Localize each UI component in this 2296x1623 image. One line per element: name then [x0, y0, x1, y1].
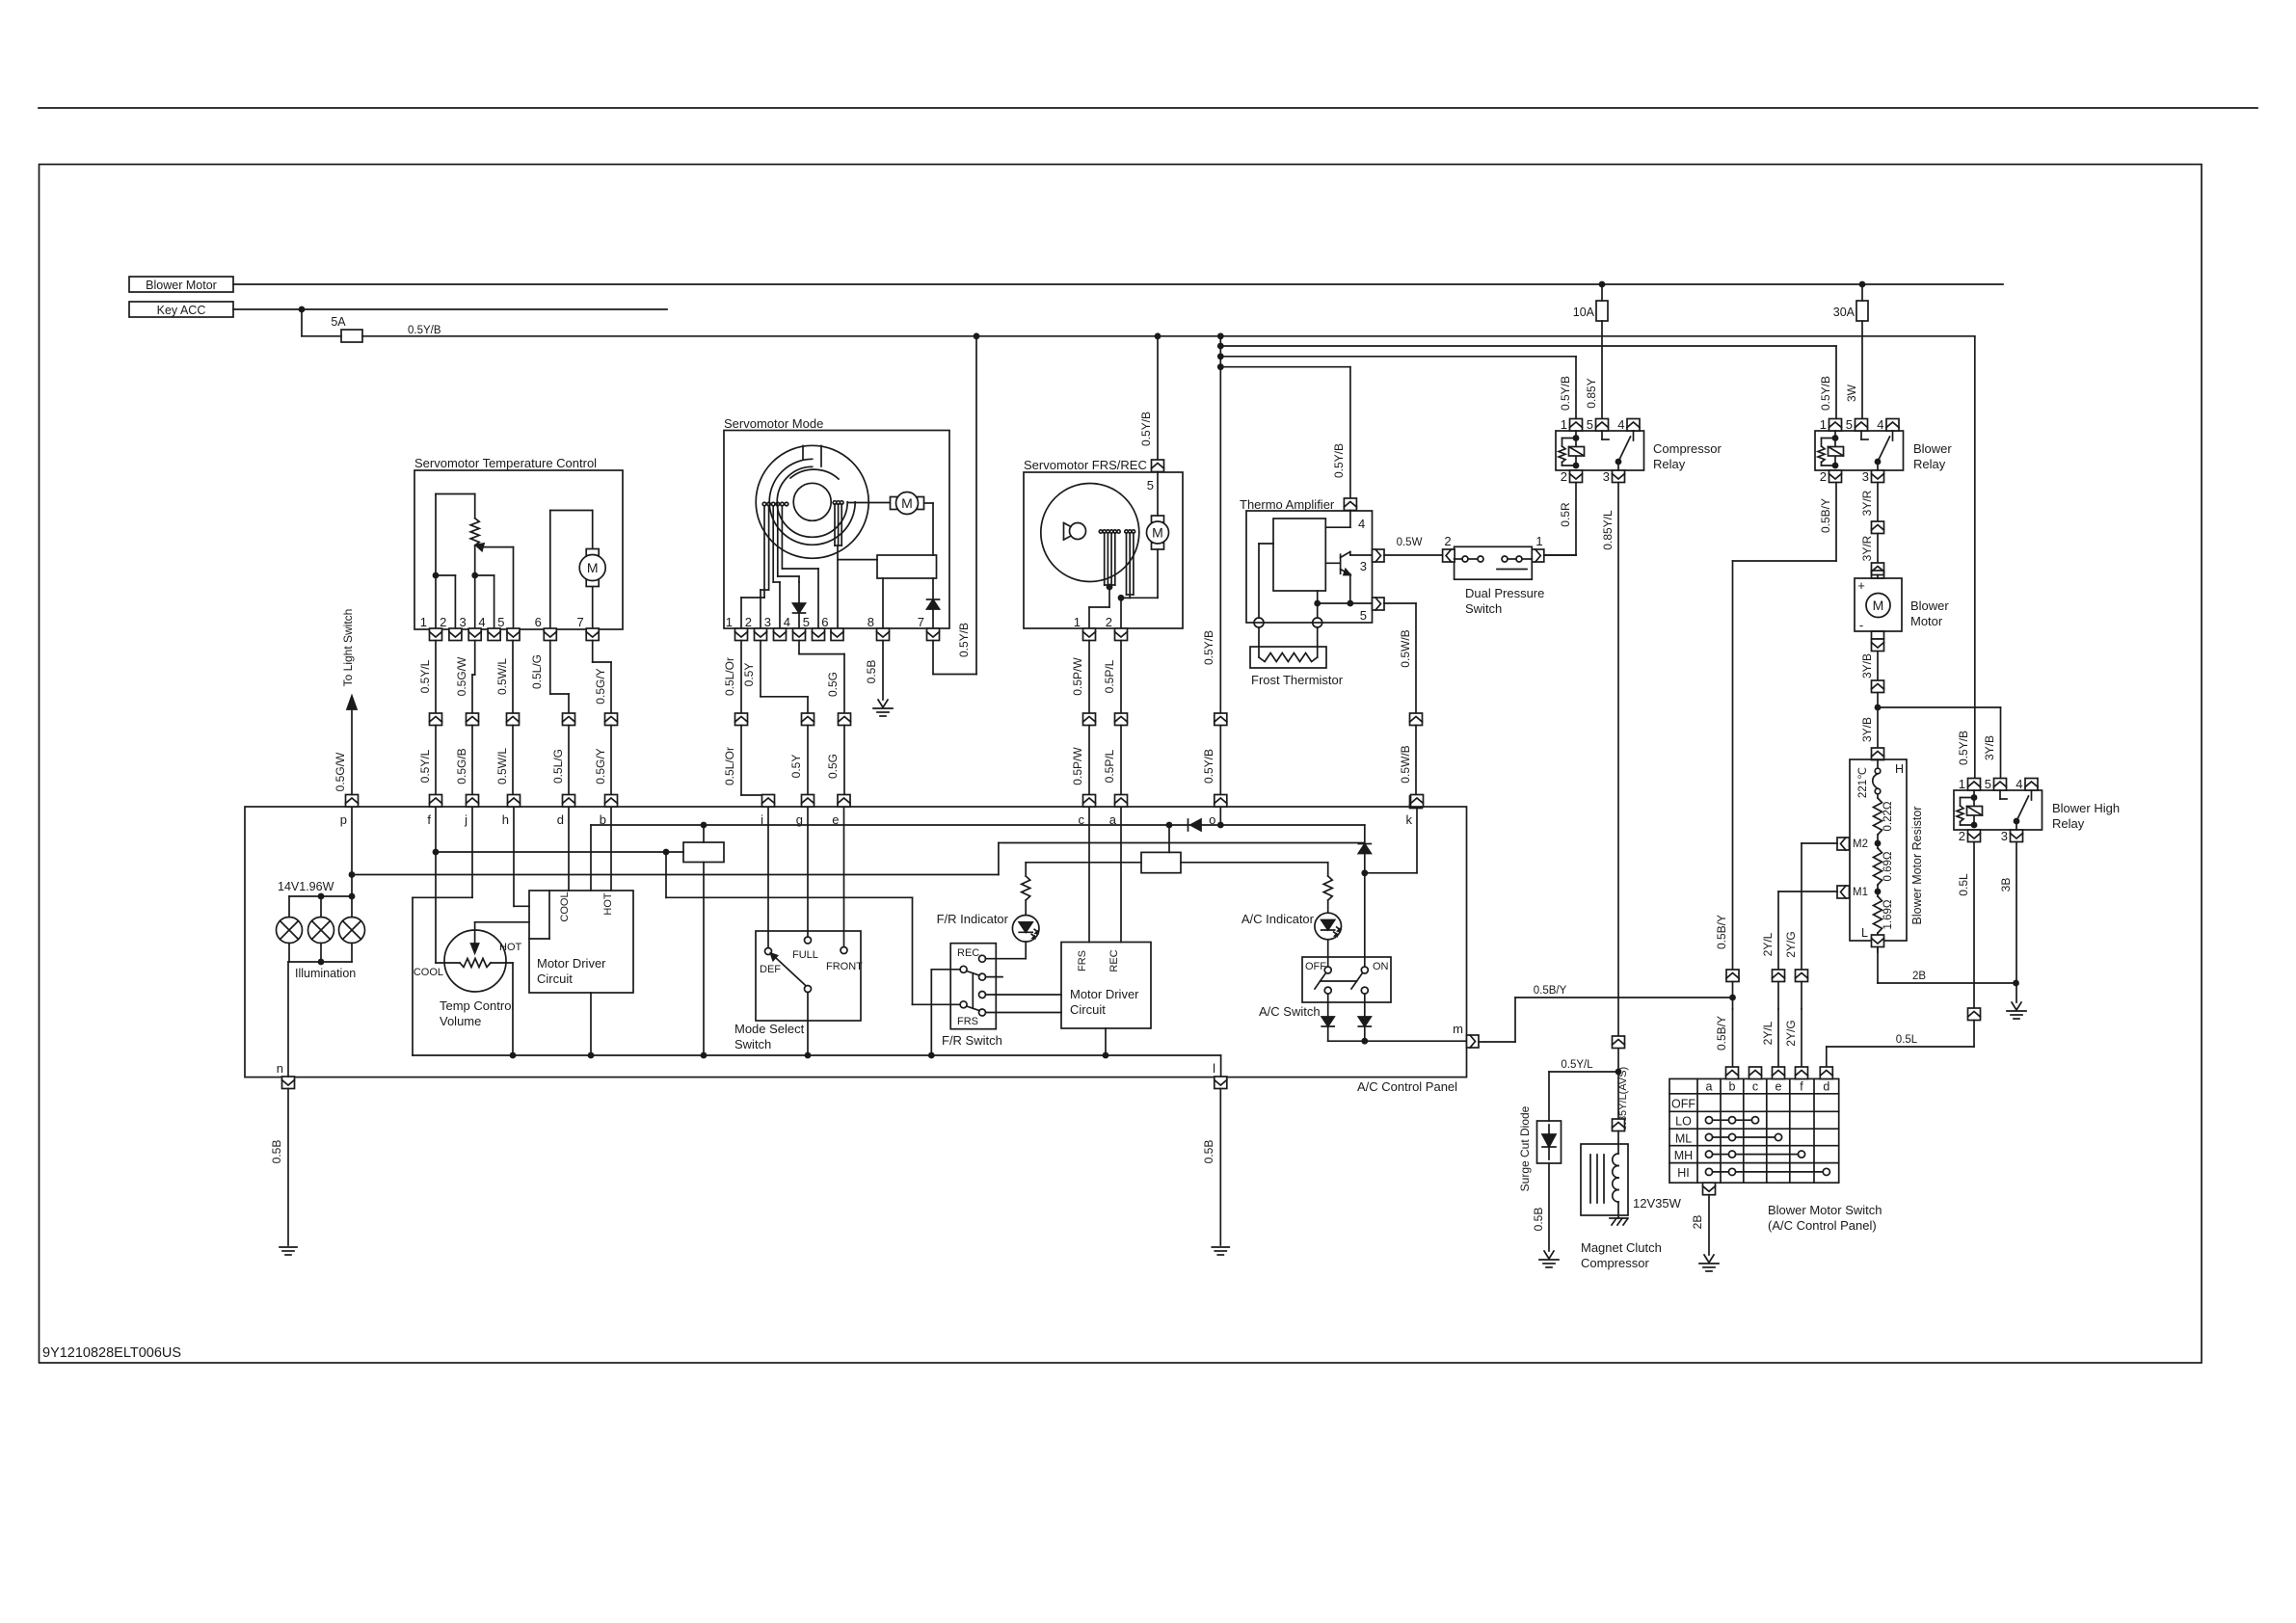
- svg-text:m: m: [1453, 1022, 1463, 1036]
- wire to A/C switch ON: [1364, 873, 1366, 967]
- resistor F/R indicator: [1022, 876, 1030, 900]
- block Motor Driver Circuit 2: [1061, 943, 1151, 1029]
- svg-text:6: 6: [535, 615, 542, 629]
- resistor A/C indicator: [1323, 876, 1332, 900]
- node 30A tap: [1859, 281, 1866, 288]
- svg-text:Servomotor Temperature Control: Servomotor Temperature Control: [414, 456, 597, 470]
- wire g to FULL: [807, 808, 809, 937]
- connector panel e: [838, 795, 850, 808]
- svg-text:ML: ML: [1675, 1131, 1692, 1145]
- wire contacts to driver block: [838, 559, 877, 561]
- connector panel o: [1215, 795, 1227, 808]
- svg-text:n: n: [277, 1061, 283, 1076]
- lamp illumination: [339, 918, 365, 944]
- wire j: [471, 808, 473, 897]
- driver block servomotor mode: [877, 555, 937, 578]
- wire driver to pin7: [932, 578, 934, 599]
- connector switch a to ground: [1703, 1183, 1716, 1195]
- diode pin4 servomotor mode: [793, 603, 806, 613]
- svg-text:A/C Switch: A/C Switch: [1259, 1004, 1321, 1019]
- svg-text:3Y/B: 3Y/B: [1860, 717, 1874, 742]
- contacts HI row: [1705, 1168, 1712, 1175]
- contact common: [805, 986, 812, 993]
- wire driver to pin8: [882, 578, 884, 629]
- wire p bus: [352, 874, 999, 876]
- motor M servomotor FRS/REC: [1152, 516, 1164, 522]
- thermo amp inner circuit block: [1273, 519, 1325, 591]
- node surge diode tap: [1615, 1069, 1622, 1076]
- ground n: [280, 1246, 297, 1248]
- ground blower high relay pin3: [2012, 1002, 2021, 1010]
- wire c to MDC2 FRS: [1088, 808, 1090, 943]
- fuse 5A: [341, 330, 362, 342]
- wire contacts to pin6: [837, 545, 839, 629]
- connector servo mode pin 6: [831, 628, 843, 641]
- wire 0.5B/Y into switch: [1732, 1009, 1734, 1067]
- wire 0.5B from l: [1219, 1089, 1221, 1246]
- connector servo mode pin 3: [774, 628, 787, 641]
- wire 0.5Y/B to blower high relay pin1: [1974, 336, 1976, 779]
- svg-text:Circuit: Circuit: [1070, 1002, 1106, 1017]
- svg-text:ON: ON: [1373, 961, 1389, 972]
- svg-text:0.5W/L: 0.5W/L: [495, 658, 509, 695]
- svg-text:5: 5: [803, 615, 810, 629]
- svg-text:c: c: [1752, 1080, 1758, 1094]
- wire to frost thermistor: [1258, 627, 1260, 657]
- connector 0.5Y mid: [802, 713, 814, 726]
- svg-text:0.5Y/B: 0.5Y/B: [1202, 630, 1215, 665]
- svg-text:0.5Y: 0.5Y: [742, 663, 756, 687]
- svg-text:2: 2: [440, 615, 446, 629]
- wire to pin5: [1318, 602, 1373, 604]
- svg-text:Volume: Volume: [440, 1014, 481, 1028]
- node 10A tap: [1599, 281, 1606, 288]
- wire 0.5Y: [760, 641, 761, 697]
- svg-text:0.22Ω: 0.22Ω: [1882, 801, 1894, 831]
- contacts MH row: [1705, 1151, 1712, 1157]
- diode A/C ON: [1358, 1017, 1371, 1026]
- svg-text:A/C Indicator: A/C Indicator: [1241, 912, 1315, 926]
- svg-text:0.5L/G: 0.5L/G: [530, 654, 544, 689]
- resistor 0.22 ohm: [1874, 798, 1882, 835]
- svg-text:M: M: [587, 560, 599, 575]
- thermistor terminal right: [1313, 618, 1322, 627]
- connector 0.5P/W mid: [1083, 713, 1096, 726]
- svg-text:L: L: [1861, 926, 1868, 940]
- wire 0.5B to ground: [882, 641, 884, 701]
- connector panel a: [1115, 795, 1128, 808]
- connector 0.5W/B: [1410, 713, 1423, 726]
- wire 3Y/R: [1877, 483, 1879, 522]
- svg-text:0.5G/W: 0.5G/W: [334, 752, 347, 791]
- connector 0.5P/L mid: [1115, 713, 1128, 726]
- wiper temp pot: [481, 546, 514, 548]
- wire 0.5L from blower high relay pin2: [1973, 842, 1975, 1009]
- connector 0.5W/B panel k: [1410, 796, 1423, 809]
- connector FRS/REC pin1: [1083, 628, 1096, 641]
- connector 0.5W/L mid: [507, 713, 520, 726]
- wire h: [513, 808, 515, 906]
- svg-text:Relay: Relay: [1913, 457, 1946, 471]
- svg-text:2: 2: [1959, 829, 1965, 843]
- connector 0.5B/Y: [1726, 970, 1739, 982]
- page separator rule: [39, 107, 2257, 109]
- svg-text:0.5G/Y: 0.5G/Y: [594, 748, 607, 784]
- svg-text:0.5Y/B: 0.5Y/B: [1819, 376, 1832, 411]
- coil Magnet Clutch Compressor: [1581, 1144, 1628, 1215]
- ground magnet clutch: [1610, 1217, 1627, 1219]
- svg-text:Mode Select: Mode Select: [734, 1022, 805, 1036]
- wire pin5 to motor: [1157, 472, 1159, 517]
- connector thermo amp pin3: [1373, 549, 1385, 562]
- node p rail junction: [349, 871, 356, 878]
- lever A/C OFF: [1315, 973, 1326, 990]
- connector panel p: [346, 795, 359, 808]
- motor M servomotor mode: [891, 497, 897, 510]
- svg-text:HI: HI: [1677, 1166, 1690, 1180]
- ground servomotor mode pin8: [878, 700, 888, 707]
- relay Blower Relay: [1815, 431, 1904, 470]
- wire 3B from blower high relay pin3: [2016, 842, 2017, 1003]
- connector servo temp pin 7: [586, 628, 599, 641]
- svg-text:COOL: COOL: [414, 967, 443, 978]
- wire 0.5Y/B to servomotor mode pin7: [975, 336, 977, 675]
- svg-text:F/R Switch: F/R Switch: [942, 1033, 1002, 1048]
- relay Blower High Relay: [1954, 790, 2042, 830]
- wire p to illumination: [351, 808, 353, 896]
- svg-text:2B: 2B: [1691, 1215, 1704, 1230]
- wire 0.5P/W: [1088, 641, 1090, 714]
- svg-text:Blower: Blower: [1913, 441, 1952, 456]
- svg-text:Blower High: Blower High: [2052, 801, 2120, 815]
- connector panel f: [430, 795, 442, 808]
- connector 0.5L: [1968, 1008, 1981, 1021]
- wire lamp top rail: [289, 895, 352, 897]
- svg-text:1: 1: [726, 615, 733, 629]
- svg-text:0.5Y/B: 0.5Y/B: [408, 325, 441, 336]
- node 3Y/B junction: [1875, 705, 1882, 711]
- svg-text:7: 7: [576, 615, 583, 629]
- connector servo mode pin 2: [755, 628, 767, 641]
- svg-text:M2: M2: [1853, 838, 1868, 850]
- wire 0.85Y to compressor relay pin5: [1601, 321, 1603, 419]
- lever mode select: [773, 955, 806, 986]
- connector servo mode pin 5: [813, 628, 825, 641]
- wire f bus: [436, 851, 683, 853]
- wire 2Y/G into switch: [1801, 1009, 1802, 1067]
- connector servo temp pin 3: [468, 628, 481, 641]
- lever F/R 2: [967, 1006, 979, 1011]
- svg-text:14V1.96W: 14V1.96W: [278, 880, 334, 893]
- svg-text:h: h: [502, 812, 509, 827]
- switch grid Blower Motor Switch: [1669, 1078, 1839, 1183]
- diode clamp pin7: [927, 599, 940, 600]
- wire F/R to MDC2 b: [986, 1012, 1062, 1014]
- wire b to motor driver HOT: [610, 808, 612, 891]
- svg-text:1: 1: [1959, 777, 1965, 791]
- svg-text:DEF: DEF: [760, 964, 781, 975]
- connector switch col: [1796, 1067, 1808, 1079]
- svg-text:8: 8: [868, 615, 874, 629]
- svg-text:p: p: [340, 812, 347, 827]
- svg-text:1: 1: [420, 615, 427, 629]
- svg-text:1: 1: [1074, 615, 1081, 629]
- svg-text:3: 3: [764, 615, 771, 629]
- svg-text:0.5L/Or: 0.5L/Or: [723, 747, 736, 785]
- svg-text:2: 2: [1820, 469, 1827, 484]
- component R1 block: [683, 842, 724, 863]
- diagram border frame: [40, 165, 2203, 1364]
- connector m: [1467, 1035, 1480, 1048]
- node 0.5B/Y / m junction: [1729, 995, 1736, 1001]
- connector 0.5L/Or mid: [735, 713, 748, 726]
- connector 3Y/B resistor H: [1872, 748, 1884, 760]
- svg-text:0.5Y/B: 0.5Y/B: [1559, 376, 1572, 411]
- svg-text:3: 3: [2001, 829, 2008, 843]
- svg-text:Compressor: Compressor: [1581, 1256, 1649, 1270]
- wire 2B: [1708, 1195, 1710, 1255]
- contacts LO row: [1705, 1117, 1712, 1124]
- wire R1 to rail: [703, 863, 705, 1056]
- resistor temp pot: [470, 519, 479, 545]
- resistor block Blower Motor Resistor: [1850, 759, 1907, 941]
- wire Key ACC line: [233, 308, 667, 310]
- contacts ML row: [1705, 1133, 1712, 1140]
- wire DPS pin1 to compressor relay pin2: [1544, 554, 1576, 556]
- wire pin7 to feed: [932, 641, 934, 675]
- svg-text:Key ACC: Key ACC: [157, 304, 206, 317]
- svg-text:221℃: 221℃: [1857, 767, 1869, 798]
- svg-text:4: 4: [784, 615, 790, 629]
- wire 3W to blower relay pin5: [1861, 321, 1863, 419]
- svg-text:0.5B: 0.5B: [1202, 1140, 1215, 1164]
- svg-text:0.5Y/L: 0.5Y/L: [1561, 1059, 1593, 1071]
- svg-text:0.5P/W: 0.5P/W: [1071, 657, 1084, 696]
- thermal fuse element 221C: [1873, 774, 1878, 788]
- svg-text:5: 5: [1985, 777, 1991, 791]
- connector DPS pin2: [1443, 549, 1455, 562]
- connector 0.5G/W mid: [467, 713, 479, 726]
- svg-text:3Y/R: 3Y/R: [1860, 490, 1874, 516]
- wire 2Y/L into switch: [1777, 1009, 1779, 1067]
- svg-text:0.5L/Or: 0.5L/Or: [723, 657, 736, 696]
- svg-text:To Light Switch: To Light Switch: [341, 609, 355, 687]
- svg-text:0.5G/B: 0.5G/B: [455, 748, 468, 784]
- svg-text:0.5L: 0.5L: [1896, 1034, 1918, 1046]
- svg-text:5: 5: [1846, 417, 1853, 432]
- connector panel g: [802, 795, 814, 808]
- wire 0.5Y/L: [435, 641, 437, 714]
- thermistor Frost Thermistor: [1250, 647, 1326, 668]
- link F/R levers: [972, 973, 974, 1008]
- wire feed to compressor relay pin1: [1220, 356, 1576, 358]
- wire inner bus: [591, 824, 1365, 826]
- connector 0.5G/Y mid: [605, 713, 618, 726]
- connector switch col: [1726, 1067, 1739, 1079]
- svg-text:0.5B/Y: 0.5B/Y: [1819, 498, 1832, 533]
- svg-text:H: H: [1895, 762, 1904, 776]
- svg-text:5: 5: [497, 615, 504, 629]
- svg-text:3W: 3W: [1845, 384, 1858, 402]
- contact FRS top-left: [960, 966, 967, 972]
- connector M2: [1837, 838, 1850, 850]
- diode Surge Cut Diode: [1537, 1121, 1562, 1163]
- contact FRS bottom-left: [960, 1001, 967, 1008]
- wire inner bus 2: [999, 842, 1365, 844]
- svg-text:Dual Pressure: Dual Pressure: [1465, 586, 1544, 600]
- wire feed to thermo amplifier pin4: [1220, 366, 1350, 368]
- ground l: [1212, 1246, 1229, 1248]
- svg-text:COOL: COOL: [559, 891, 571, 921]
- contact FULL: [805, 937, 812, 944]
- svg-text:0.5L: 0.5L: [1957, 873, 1970, 896]
- svg-text:0.5B/Y: 0.5B/Y: [1715, 915, 1728, 949]
- connector servo mode pin 1: [735, 628, 748, 641]
- connector panel j: [467, 795, 479, 808]
- svg-text:Switch: Switch: [734, 1037, 771, 1051]
- svg-text:0.5G/W: 0.5G/W: [455, 656, 468, 696]
- svg-text:b: b: [1729, 1080, 1736, 1094]
- wire i to DEF: [767, 808, 769, 948]
- wire 0.5G: [798, 641, 800, 654]
- svg-text:0.69Ω: 0.69Ω: [1882, 851, 1894, 881]
- switch Dual Pressure Switch: [1455, 546, 1533, 579]
- wire j to bottom rail: [412, 897, 414, 1055]
- wire 0.5G/W: [471, 675, 473, 713]
- svg-text:3B: 3B: [1999, 878, 2013, 892]
- svg-text:0.5W/L: 0.5W/L: [495, 748, 509, 785]
- svg-text:4: 4: [1358, 517, 1365, 531]
- svg-text:REC: REC: [957, 947, 979, 959]
- svg-text:Switch: Switch: [1465, 601, 1502, 616]
- svg-text:3: 3: [459, 615, 466, 629]
- connector switch col: [1820, 1067, 1832, 1079]
- svg-text:1: 1: [1535, 534, 1542, 548]
- svg-text:0.5P/L: 0.5P/L: [1103, 659, 1116, 693]
- svg-text:FRS: FRS: [957, 1016, 978, 1027]
- connector 3Y/R lower: [1872, 563, 1884, 575]
- svg-text:d: d: [1823, 1080, 1829, 1094]
- svg-text:Thermo Amplifier: Thermo Amplifier: [1240, 497, 1335, 512]
- wire pot HOT side to rail: [512, 963, 514, 1055]
- wire 0.5B/Y: [1835, 483, 1837, 562]
- svg-text:Temp Control: Temp Control: [440, 998, 514, 1013]
- connector panel c: [1083, 795, 1096, 808]
- svg-text:0.5Y/B: 0.5Y/B: [1332, 443, 1346, 478]
- diode k to bus: [1358, 843, 1371, 845]
- connector 2Y/G: [1796, 970, 1808, 982]
- svg-text:j: j: [464, 812, 467, 827]
- svg-text:3Y/B: 3Y/B: [1860, 653, 1874, 678]
- svg-text:FRS: FRS: [1077, 950, 1088, 971]
- svg-text:3: 3: [1603, 469, 1610, 484]
- svg-text:0.5R: 0.5R: [1559, 502, 1572, 527]
- svg-text:HOT: HOT: [602, 892, 614, 916]
- wire feed to blower relay pin1: [1220, 345, 1836, 347]
- svg-text:0.5P/L: 0.5P/L: [1103, 749, 1116, 783]
- svg-text:2: 2: [1561, 469, 1567, 484]
- wire MDC2 to rail: [1105, 1028, 1107, 1055]
- node feed column: [1217, 333, 1224, 339]
- node FRS/REC pin2: [1118, 595, 1125, 601]
- node f / line-a junction: [433, 849, 440, 856]
- motor Blower Motor: [1855, 578, 1902, 631]
- svg-text:2Y/G: 2Y/G: [1784, 931, 1798, 957]
- svg-text:4: 4: [2016, 777, 2022, 791]
- switch F/R Switch: [950, 944, 996, 1029]
- connector FRS/REC pin5: [1152, 460, 1164, 472]
- svg-text:0.5B: 0.5B: [865, 660, 878, 684]
- connector servo temp pin 4: [488, 628, 500, 641]
- node Key ACC branch: [299, 306, 306, 313]
- wire REC contact to LED: [986, 958, 1027, 960]
- svg-text:2Y/L: 2Y/L: [1761, 1021, 1775, 1045]
- svg-text:Relay: Relay: [2052, 816, 2085, 831]
- connector servo temp pin 2: [449, 628, 462, 641]
- node 2B / 3B junction: [2013, 980, 2019, 987]
- svg-text:5: 5: [1147, 478, 1154, 492]
- svg-text:4: 4: [1877, 417, 1883, 432]
- connector panel l: [1215, 1077, 1227, 1089]
- contact OFF top: [1324, 967, 1331, 973]
- connector 0.5Y/B o mid: [1215, 713, 1227, 726]
- wire 0.5Y/B main feed: [362, 335, 1975, 337]
- svg-text:5A: 5A: [331, 315, 346, 329]
- wire ON to diode: [1364, 994, 1366, 1017]
- connector switch col: [1749, 1067, 1762, 1079]
- svg-text:0.5B/Y: 0.5B/Y: [1715, 1016, 1728, 1051]
- svg-text:HOT: HOT: [499, 942, 522, 953]
- svg-text:MH: MH: [1674, 1149, 1693, 1162]
- box A/C Control Panel: [245, 807, 1467, 1078]
- wire to FRS top-left: [931, 969, 960, 971]
- connector panel n: [282, 1077, 295, 1089]
- component R2 block: [1141, 852, 1181, 872]
- svg-text:LO: LO: [1675, 1115, 1692, 1129]
- wire a to MDC2 REC: [1120, 808, 1122, 943]
- svg-text:0.5Y/L: 0.5Y/L: [418, 749, 432, 783]
- wire 0.5W to DPS: [1384, 554, 1443, 556]
- wire 0.5R: [1575, 483, 1577, 556]
- wire k inside panel: [1416, 808, 1418, 873]
- connector servo temp pin 6: [544, 628, 556, 641]
- wire mode select common to rail: [807, 993, 809, 1056]
- svg-text:7: 7: [918, 615, 924, 629]
- svg-text:Blower: Blower: [1910, 599, 1949, 613]
- motor M temp control: [549, 511, 551, 630]
- svg-text:0.5Y/B: 0.5Y/B: [957, 623, 971, 657]
- lamp illumination: [308, 918, 334, 944]
- link A/C levers: [1321, 980, 1357, 982]
- connector servo temp pin 1: [430, 628, 442, 641]
- svg-text:FULL: FULL: [792, 949, 818, 961]
- svg-text:12V35W: 12V35W: [1633, 1196, 1682, 1211]
- svg-text:10A: 10A: [1573, 306, 1595, 319]
- thermistor element: [1259, 653, 1318, 662]
- connector resistor L out: [1872, 935, 1884, 947]
- svg-text:Circuit: Circuit: [537, 971, 573, 986]
- svg-text:Compressor: Compressor: [1653, 441, 1722, 456]
- svg-text:5: 5: [1360, 608, 1367, 623]
- wire pin4 into box: [1349, 511, 1351, 528]
- fuse 30A: [1856, 301, 1868, 321]
- svg-text:Frost Thermistor: Frost Thermistor: [1251, 673, 1344, 687]
- wire M+ to driver: [932, 503, 934, 555]
- LED A/C Indicator: [1327, 863, 1329, 876]
- connector panel i: [762, 795, 775, 808]
- lamp illumination: [277, 918, 303, 944]
- svg-text:0.85Y: 0.85Y: [1585, 378, 1598, 408]
